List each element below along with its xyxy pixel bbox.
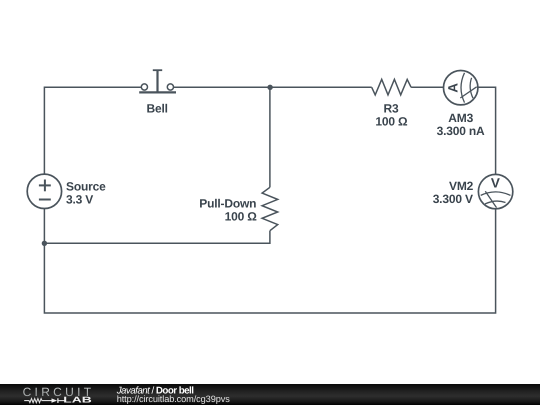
- svg-text:LAB: LAB: [63, 395, 91, 405]
- svg-text:V: V: [491, 176, 500, 191]
- svg-text:3.300 V: 3.300 V: [433, 192, 473, 206]
- svg-text:3.3 V: 3.3 V: [66, 193, 93, 207]
- svg-text:Source: Source: [66, 180, 106, 194]
- svg-text:http://circuitlab.com/cg39pvs: http://circuitlab.com/cg39pvs: [117, 394, 231, 404]
- svg-text:R3: R3: [384, 101, 399, 115]
- svg-text:Bell: Bell: [147, 101, 168, 115]
- svg-text:Pull-Down: Pull-Down: [199, 197, 256, 211]
- svg-text:100 Ω: 100 Ω: [225, 210, 258, 224]
- svg-text:3.300 nA: 3.300 nA: [437, 124, 485, 138]
- svg-text:100 Ω: 100 Ω: [375, 115, 408, 129]
- svg-text:A: A: [446, 83, 461, 93]
